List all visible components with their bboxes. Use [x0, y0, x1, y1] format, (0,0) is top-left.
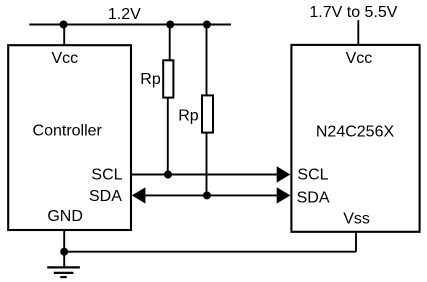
svg-text:N24C256X: N24C256X — [316, 124, 395, 141]
svg-text:SCL: SCL — [297, 167, 328, 184]
svg-text:1.7V to 5.5V: 1.7V to 5.5V — [309, 4, 397, 21]
svg-text:SDA: SDA — [297, 190, 330, 207]
svg-text:Controller: Controller — [33, 123, 103, 140]
svg-text:SDA: SDA — [89, 188, 122, 205]
svg-text:Rp: Rp — [178, 108, 199, 125]
svg-text:GND: GND — [47, 208, 83, 225]
svg-text:Vcc: Vcc — [51, 50, 78, 67]
svg-text:1.2V: 1.2V — [108, 6, 141, 23]
svg-text:Vss: Vss — [343, 211, 370, 228]
svg-text:SCL: SCL — [91, 167, 122, 184]
svg-text:Vcc: Vcc — [346, 50, 373, 67]
svg-text:Rp: Rp — [140, 71, 161, 88]
